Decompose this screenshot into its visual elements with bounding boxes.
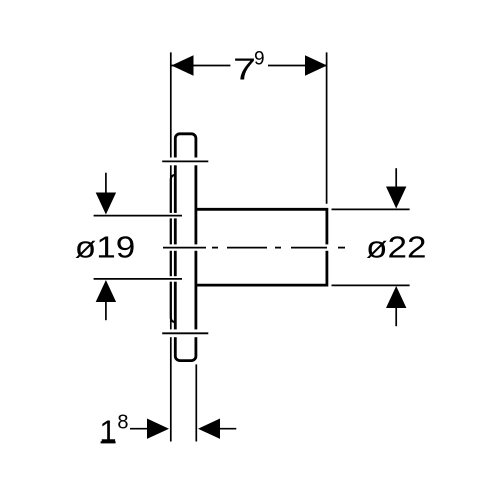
extension line left (x=170.8) [170,52,172,441]
svg-text:8: 8 [117,411,128,433]
dia22 upper arrowhead [386,187,406,209]
dia19 top dimension line [94,215,182,217]
svg-text:ø22: ø22 [366,230,427,265]
dia22 top dimension line [332,208,410,210]
centre line dash-dot [163,247,345,249]
cylinder spigot body [196,209,327,285]
dimension line 1-8 left [130,428,148,430]
white casing for top wall tick [162,158,208,166]
flange plate outline [175,134,196,361]
white casing for dia19 bottom dimension line [94,276,182,282]
dia19 upper arrowhead [96,193,116,215]
dia22 upper arrow stem [395,168,397,188]
arrowhead 1-8 right [198,419,220,439]
white casing for dia19 top dimension line [94,213,182,219]
dimension line 1-8 right [219,428,236,430]
extension line top right (x=326.6) [326,52,328,203]
wall tick top [162,160,208,162]
dimension line 7-9 top [172,65,231,67]
svg-text:7: 7 [233,52,256,87]
arrowhead 1-8 left [147,419,169,439]
dia22 lower arrowhead [386,286,406,308]
white casing for centre line [163,244,345,250]
svg-text:9: 9 [254,49,265,70]
dia19 bottom dimension line [94,278,182,280]
dia19 lower arrowhead [96,280,116,302]
dia22 lower arrow stem [395,307,397,326]
dia19 upper arrow stem [105,173,107,194]
dia22 bottom dimension line [332,284,410,286]
svg-text:ø19: ø19 [75,230,136,265]
extension line bottom right (x=196.3) [195,364,197,441]
wall tick bottom [162,332,208,334]
seal collar bulge on back of flange [171,175,176,322]
arrowhead top right [305,55,327,75]
arrowhead top left [172,55,194,75]
dia19 lower arrow stem [105,301,107,320]
white casing for bottom wall tick [162,329,208,337]
